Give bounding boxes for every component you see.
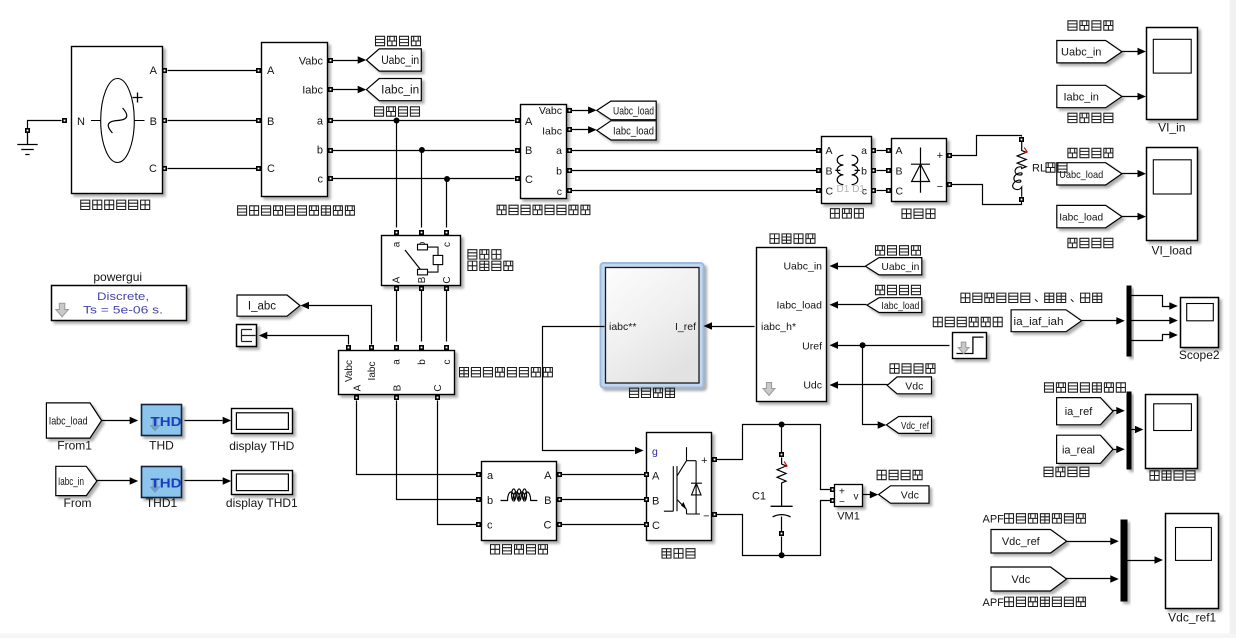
scope Scope2 [1179, 298, 1220, 363]
svg-text:VI_load: VI_load [1151, 244, 1192, 258]
svg-text:Vdc: Vdc [901, 490, 919, 502]
label 补偿电流 [1044, 467, 1089, 476]
label 实际补偿电流测量 [460, 368, 553, 377]
block inverter 逆变桥 [647, 433, 712, 541]
label 三相电压电流输出测量 [238, 206, 355, 215]
block breaker 断路器 [382, 236, 461, 286]
svg-text:I_ref: I_ref [675, 321, 696, 333]
svg-text:b: b [861, 166, 867, 178]
block transformer 变压器 T1 [822, 137, 872, 204]
port inverter left [644, 522, 649, 527]
svg-text:Ts = 5e-06 s.: Ts = 5e-06 s. [83, 305, 163, 317]
svg-text:Uabc_load: Uabc_load [613, 105, 654, 117]
label 补偿电流参考值 [1045, 383, 1126, 392]
wire THD1 to display1 [185, 480, 223, 482]
block 实际补偿电流测量 [339, 351, 455, 395]
port inverter left [644, 497, 649, 502]
wire Iabc_load to VI_load [1122, 216, 1139, 218]
label 网侧电压 (right) [1068, 21, 1113, 30]
svg-text:Scope2: Scope2 [1179, 348, 1220, 362]
svg-text:APF: APF [983, 597, 1005, 609]
svg-text:c: c [557, 186, 562, 198]
port loadmeas in [515, 176, 520, 181]
terminator E block [237, 325, 257, 347]
svg-text:A: A [525, 116, 533, 128]
port meas1 out 150.0 [328, 148, 333, 153]
port transformer left [816, 168, 821, 173]
display THD block [232, 409, 293, 434]
port breaker top [419, 230, 424, 235]
label 负载电压 [1068, 148, 1113, 157]
demux bar (Scope2) [1127, 286, 1132, 357]
label 交流侧电感 [491, 545, 548, 554]
svg-text:ia_ref: ia_ref [1065, 406, 1093, 418]
svg-text:+: + [839, 486, 845, 497]
svg-text:+: + [701, 455, 707, 467]
svg-text:Iabc: Iabc [542, 126, 562, 138]
port inductor left [476, 497, 481, 502]
wire inverter + to VM1 + [717, 425, 831, 490]
goto tag Vdc (lower) [879, 486, 929, 503]
label 谐波检测 [770, 234, 815, 243]
ground port [25, 128, 30, 133]
from tag ia_ref [1057, 398, 1113, 425]
svg-text:+: + [937, 150, 943, 162]
port loadmeas out [567, 148, 572, 153]
port source N [62, 118, 67, 123]
svg-text:A: A [652, 471, 660, 483]
svg-text:a: a [556, 145, 562, 157]
wire transformer to rectifier [877, 190, 887, 192]
svg-text:a: a [487, 470, 494, 482]
wire step to Uref [837, 345, 950, 347]
wire compmeas A to inductor a [357, 401, 477, 475]
port inverter left [644, 472, 649, 477]
block 谐波检测 [757, 248, 827, 402]
red marker [784, 462, 787, 467]
wire b row [333, 150, 515, 152]
from tag Iabc_in (From) [56, 466, 97, 495]
label 负载电压电流测量 [497, 205, 590, 214]
scope VI_load [1147, 148, 1198, 258]
wire Iabc to Iabc_load [572, 129, 589, 131]
wire Vdc to mux [1067, 578, 1111, 580]
svg-text:a: a [392, 359, 403, 365]
svg-text:I_abc: I_abc [248, 301, 276, 313]
port meas1 in 70.0 [256, 68, 261, 73]
wire ia_real to mux [1113, 449, 1117, 451]
svg-text:c: c [442, 360, 453, 365]
goto tag I_abc [237, 295, 300, 316]
wire VM1 v to Vdc goto [863, 494, 872, 496]
svg-text:A: A [826, 145, 833, 157]
from tag Iabc_load (right) [1057, 205, 1122, 227]
svg-text:Uabc_in: Uabc_in [881, 261, 919, 273]
wire Uabc_in to VI_in [1122, 51, 1139, 53]
svg-text:g: g [652, 446, 658, 458]
wire inductor A to inverter A [562, 474, 645, 476]
wire c to transformer C [572, 190, 817, 192]
svg-text:A: A [392, 276, 403, 283]
C1 branch (R + C) [771, 425, 793, 556]
from tag Uabc_load (right) [1057, 163, 1122, 185]
port source C [162, 166, 167, 171]
from tag Iabc_load (From1) [46, 403, 101, 438]
port inductor right [557, 522, 562, 527]
goto tag Iabc_in [366, 79, 421, 101]
junction b [419, 147, 425, 153]
label 网侧电压 [376, 36, 421, 45]
wire demux out3 [1132, 335, 1171, 341]
port compmeas top [369, 345, 374, 350]
wire c row [333, 178, 515, 180]
svg-text:B: B [826, 166, 833, 178]
wire N to ground [28, 121, 62, 129]
svg-text:Uabc_load: Uabc_load [1059, 169, 1103, 181]
svg-text:A: A [352, 384, 363, 391]
svg-text:A: A [544, 470, 552, 482]
svg-text:Iabc_in: Iabc_in [1063, 92, 1098, 104]
svg-text:Vdc_ref: Vdc_ref [1002, 536, 1041, 548]
canvas right edge strip [1230, 0, 1236, 638]
svg-text:Vdc_ref1: Vdc_ref1 [1168, 611, 1216, 625]
port meas1 out 60.5 [328, 58, 333, 63]
wire breaker a down [396, 291, 398, 342]
svg-text:B: B [525, 145, 532, 157]
wire iabc_h* to I_ref [711, 326, 755, 328]
from tag ia_iaf_iah [1011, 310, 1082, 332]
port rectifier + [947, 153, 952, 158]
svg-text:THD: THD [149, 439, 174, 453]
canvas bottom edge strip [0, 634, 1236, 639]
port inverter - [712, 512, 717, 517]
port breaker bottom [419, 286, 424, 291]
wire source B to meas1 B [168, 120, 257, 122]
svg-text:VI_in: VI_in [1158, 121, 1185, 135]
svg-text:APF: APF [983, 513, 1005, 525]
red current marker [1024, 148, 1027, 153]
mux bar (Vdc_ref1) [1121, 520, 1128, 602]
junction C1 top [779, 422, 785, 428]
label 直流电压 (lower) [877, 470, 922, 479]
label 负载电流 [876, 285, 921, 294]
wire rectifier + to RL top [952, 136, 1022, 156]
svg-text:B: B [150, 116, 157, 128]
port meas1 out 179.0 [328, 176, 333, 181]
label 断路器 [468, 250, 501, 259]
svg-text:C: C [896, 185, 904, 197]
port source A [162, 68, 167, 73]
mux bar (harmonic current) [1127, 392, 1132, 470]
wire c down to breaker [446, 179, 448, 228]
svg-text:THD: THD [151, 415, 182, 429]
scope VI_in [1147, 28, 1198, 135]
powergui block [52, 286, 187, 321]
wire compmeas B to inductor b [397, 401, 477, 500]
port source B [162, 118, 167, 123]
goto tag Uabc_in [366, 49, 421, 71]
diode icon [911, 148, 930, 193]
junction Uref/Vdc_ref [860, 342, 866, 348]
svg-text:Vabc: Vabc [539, 105, 562, 117]
label 电流控制 [630, 388, 675, 397]
wire source C to meas1 C [168, 168, 257, 170]
svg-text:b: b [317, 145, 323, 157]
wire mux to Vdc_ref1 scope [1128, 560, 1155, 562]
svg-text:a: a [317, 116, 324, 128]
block inductor 交流侧电感 L1 [482, 462, 557, 541]
goto tag Uabc_load [597, 101, 656, 120]
svg-text:Discrete,: Discrete, [97, 291, 149, 303]
wire breaker b down [421, 291, 423, 342]
port compmeas top [346, 345, 351, 350]
wire Vabc to Uabc_in [333, 60, 359, 62]
from tag Iabc_load (input) [867, 298, 922, 313]
svg-text:From: From [64, 496, 92, 510]
wire Iabc_load to harm [837, 304, 867, 306]
label 三相交流电源 [81, 200, 150, 209]
svg-text:v: v [854, 492, 859, 503]
svg-text:a: a [861, 145, 867, 157]
port compmeas bottom [435, 395, 440, 400]
from tag Uabc_in (right) [1057, 41, 1122, 63]
port loadmeas out [567, 188, 572, 193]
svg-text:B: B [393, 384, 404, 391]
port transformer right [871, 188, 876, 193]
label 谐波补偿 [468, 261, 513, 270]
wire Uabc_load to VI_load [1122, 173, 1139, 175]
svg-text:iabc_h*: iabc_h* [761, 321, 796, 333]
label 谐波电流 [1150, 471, 1195, 480]
svg-text:b: b [417, 359, 428, 365]
wire rectifier - to RL bottom [952, 185, 1022, 205]
wire inductor B to inverter B [562, 499, 645, 501]
svg-text:Vabc: Vabc [299, 56, 324, 68]
from tag Uabc_in (input) [865, 258, 921, 275]
scope [1146, 395, 1198, 469]
svg-text:B: B [267, 116, 274, 128]
svg-text:a: a [392, 241, 403, 247]
port inductor right [557, 472, 562, 477]
wire b down to breaker [421, 151, 423, 228]
svg-text:Iabc_load: Iabc_load [776, 300, 822, 312]
svg-text:C: C [826, 185, 834, 197]
wire source A to meas1 A [168, 70, 257, 72]
svg-text:Iabc_in: Iabc_in [381, 85, 419, 97]
svg-text:A: A [896, 145, 903, 157]
from tag Iabc_in (right) [1057, 85, 1122, 107]
svg-text:c: c [487, 520, 493, 532]
svg-text:Uabc_in: Uabc_in [381, 55, 419, 67]
junction c [444, 176, 450, 182]
port transformer right [871, 168, 876, 173]
port transformer right [871, 148, 876, 153]
port meas1 in 121.0 [256, 118, 261, 123]
block 负载电压电流测量 [521, 105, 567, 199]
wire junction down to Vdc_ref [863, 346, 879, 425]
block VM1 [835, 485, 863, 509]
C1 capacitor plates [771, 506, 793, 517]
RL load branch R1 L1 [1013, 137, 1028, 202]
wire compmeas C to inductor c [438, 401, 477, 525]
svg-text:C: C [149, 163, 157, 175]
block source 三相交流电源 U1 [72, 47, 163, 194]
svg-text:C: C [652, 520, 660, 532]
svg-text:Vdc: Vdc [905, 380, 923, 392]
svg-text:display THD: display THD [229, 439, 294, 453]
wire Vdc to Udc [837, 384, 888, 386]
wire From1 to THD [102, 420, 131, 422]
svg-text:Vdc: Vdc [1011, 574, 1030, 586]
label 网侧电流 (right) [1068, 113, 1113, 122]
port breaker bottom [444, 286, 449, 291]
port meas1 in 168.0 [256, 166, 261, 171]
svg-text:Uabc_in: Uabc_in [783, 261, 822, 273]
svg-text:ia_real: ia_real [1062, 444, 1095, 456]
svg-text:Uref: Uref [802, 341, 822, 353]
port breaker top [444, 230, 449, 235]
wire ia_ref to mux [1113, 410, 1117, 412]
label 变压器 [830, 209, 863, 218]
svg-text:display THD1: display THD1 [226, 496, 298, 510]
port compmeas top [444, 345, 449, 350]
inductor coil icon [501, 489, 538, 501]
port compmeas bottom [354, 395, 359, 400]
port loadmeas out [567, 108, 572, 113]
svg-text:C: C [525, 174, 533, 186]
svg-text:Iabc: Iabc [367, 362, 378, 381]
IGBT with diode icon [664, 447, 702, 514]
label 网侧电流 [375, 107, 420, 116]
scope Vdc_ref1 [1166, 514, 1219, 625]
svg-text:Iabc_load: Iabc_load [613, 125, 654, 137]
svg-text:ia_iaf_iah: ia_iaf_iah [1014, 316, 1064, 328]
svg-text:N: N [77, 116, 85, 128]
svg-text:b: b [556, 166, 562, 178]
display THD1 block [232, 471, 293, 495]
wire mux to scope [1132, 429, 1137, 431]
port transformer left [816, 148, 821, 153]
label 直流电压 (upper) [890, 364, 935, 373]
port loadmeas out [567, 127, 572, 132]
label 交流负载电流、基波、谐波 [961, 293, 1102, 302]
port inductor right [557, 497, 562, 502]
wire a down to breaker [396, 121, 398, 228]
label 直流电压指令 [933, 317, 1002, 326]
svg-text:Vdc_ref: Vdc_ref [901, 420, 929, 432]
svg-text:Iabc_in: Iabc_in [58, 476, 84, 488]
wire inverter - to VM1 - [717, 501, 831, 556]
wire Vabc up to E block [267, 336, 349, 345]
wire Iabc to Iabc_in [333, 89, 359, 91]
block 电流控制 (selected) [601, 263, 704, 388]
svg-text:VM1: VM1 [837, 511, 860, 523]
wire b to transformer B [572, 170, 817, 172]
port rectifier - [947, 182, 952, 187]
goto tag Iabc_load [597, 121, 656, 140]
svg-text:A: A [150, 65, 158, 77]
svg-text:Iabc: Iabc [302, 85, 323, 97]
wire transformer to rectifier [877, 170, 887, 172]
wire Iabc_in to VI_in [1122, 96, 1139, 98]
svg-text:C: C [442, 276, 453, 283]
block THD [142, 405, 182, 436]
wire Iabc up to I_abc [309, 306, 372, 345]
port inductor left [476, 472, 481, 477]
label 逆变桥 [662, 549, 695, 558]
breaker port letters [392, 241, 454, 283]
svg-text:THD1: THD1 [146, 496, 178, 510]
svg-text:Iabc_load: Iabc_load [1059, 212, 1103, 224]
port loadmeas out [567, 168, 572, 173]
port breaker bottom [394, 286, 399, 291]
svg-text:Udc: Udc [803, 379, 822, 391]
port inductor left [476, 522, 481, 527]
from tag Vdc (input) [887, 377, 931, 394]
breaker switch icon [405, 244, 443, 275]
step block [953, 333, 987, 359]
wire transformer to rectifier [877, 150, 887, 152]
port compmeas top [419, 345, 424, 350]
wire Uabc_in to harm [837, 266, 866, 268]
svg-text:iabc**: iabc** [609, 321, 636, 333]
wire a row [333, 120, 515, 122]
block THD1 [142, 467, 182, 498]
svg-text:−: − [839, 497, 845, 508]
svg-text:Iabc_load: Iabc_load [49, 416, 88, 428]
ground symbol [17, 133, 37, 155]
inductor L coil [1013, 167, 1022, 197]
junction a [394, 118, 400, 124]
port breaker top [394, 230, 399, 235]
port compmeas bottom [394, 395, 399, 400]
block rectifier 整流器 D2 [892, 139, 947, 202]
svg-text:powergui: powergui [93, 270, 142, 284]
wire inductor C to inverter C [562, 524, 645, 526]
svg-text:From1: From1 [57, 439, 92, 453]
svg-text:Vabc: Vabc [344, 360, 355, 382]
svg-text:C: C [544, 520, 552, 532]
port inverter + [712, 457, 717, 462]
svg-text:Iabc_load: Iabc_load [881, 301, 919, 312]
wire From to THD1 [97, 480, 131, 482]
label 整流器 [902, 209, 935, 218]
from tag Vdc_ref [991, 530, 1067, 554]
goto tag Vdc_ref [886, 417, 931, 434]
svg-text:D1: D1 [837, 184, 850, 195]
wire Vdc_ref to mux [1067, 541, 1111, 543]
svg-text:C: C [267, 163, 275, 175]
junction C1 bottom [779, 552, 785, 558]
from tag ia_real [1057, 435, 1113, 463]
svg-text:RL: RL [1032, 163, 1046, 175]
resistor R zigzag [1017, 142, 1026, 169]
wire demux out2 [1132, 320, 1171, 322]
port meas1 out 89.5 [328, 87, 333, 92]
C1 resistor zigzag [777, 458, 786, 507]
svg-text:c: c [442, 242, 453, 247]
svg-text:C1: C1 [752, 491, 766, 503]
wire breaker c down [446, 291, 448, 342]
wire iabc** to inverter g [543, 327, 635, 451]
wire THD to display [185, 420, 223, 422]
svg-text:−: − [703, 511, 709, 523]
port compmeas top [394, 345, 399, 350]
svg-text:B: B [652, 496, 659, 508]
port loadmeas in [515, 118, 520, 123]
from tag Vdc (bottom) [991, 567, 1067, 591]
svg-text:B: B [544, 495, 551, 507]
